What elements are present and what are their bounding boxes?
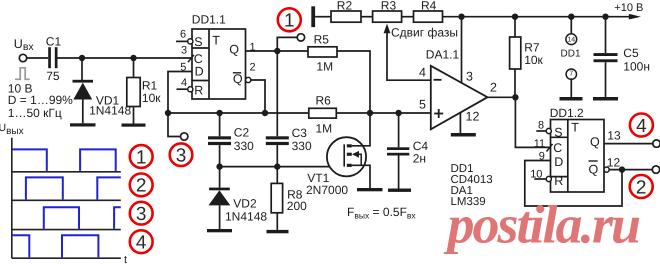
svg-text:1N4148: 1N4148 bbox=[89, 104, 131, 118]
junction R5/drain node bbox=[367, 110, 373, 116]
diode VD2 bbox=[209, 188, 268, 229]
junction C4 node bbox=[395, 110, 401, 116]
pin 2 Qbar inversion circle and wire bbox=[246, 61, 265, 113]
svg-text:1: 1 bbox=[250, 42, 256, 54]
svg-text:4: 4 bbox=[636, 116, 647, 137]
svg-text:200: 200 bbox=[287, 199, 307, 213]
junction R1 bbox=[130, 55, 136, 61]
pin 5 D wire bbox=[168, 62, 192, 113]
flip-flop DD1.2 bbox=[550, 106, 604, 192]
wire bar to R2 bbox=[315, 16, 331, 18]
wire input to C1 bbox=[27, 57, 49, 59]
ground under VT1 bbox=[357, 188, 383, 191]
capacitor C5 bbox=[594, 46, 650, 73]
waveform label 2 (red) bbox=[130, 174, 153, 197]
svg-text:2N7000: 2N7000 bbox=[306, 183, 348, 197]
junction R7 rail bbox=[512, 14, 518, 20]
svg-text:10к: 10к bbox=[524, 53, 543, 67]
wire node 3 drop bbox=[168, 113, 181, 137]
svg-text:R5: R5 bbox=[314, 32, 330, 46]
junction pin3 rail bbox=[458, 14, 464, 20]
junction Qbar drop bbox=[262, 110, 268, 116]
svg-text:R: R bbox=[194, 84, 203, 98]
svg-text:1M: 1M bbox=[316, 122, 333, 136]
wire R1 to ground bbox=[133, 107, 135, 124]
pin 3 clock arrow bbox=[181, 45, 194, 63]
terminal node 3 bbox=[181, 133, 188, 140]
potentiometer R3 bbox=[373, 0, 402, 22]
svg-text:6: 6 bbox=[180, 29, 186, 41]
terminal node 1 bbox=[297, 34, 304, 41]
pin 11 clock arrow bbox=[534, 138, 553, 152]
node label 3 (red) bbox=[170, 143, 193, 166]
pulse icon bbox=[15, 68, 30, 80]
ground under C4 bbox=[388, 189, 411, 192]
svg-text:Q: Q bbox=[590, 135, 600, 149]
svg-text:R2: R2 bbox=[337, 0, 353, 12]
wire to VD1 bbox=[81, 58, 83, 80]
bus bar top-left bbox=[311, 6, 315, 27]
svg-text:R3: R3 bbox=[381, 0, 397, 12]
svg-text:12: 12 bbox=[466, 110, 480, 124]
wire output to DD1.2 clock bbox=[515, 97, 549, 147]
resistor R4 bbox=[414, 0, 443, 22]
svg-text:DA1.1: DA1.1 bbox=[426, 47, 460, 61]
wire C3 bottom to R8 bbox=[276, 145, 278, 183]
svg-text:C: C bbox=[553, 141, 562, 155]
pin 2 output wire bbox=[488, 81, 516, 98]
wire to R1 bbox=[133, 58, 135, 78]
svg-text:S: S bbox=[554, 126, 562, 140]
wire R8 to ground bbox=[276, 213, 278, 230]
svg-text:Q: Q bbox=[233, 72, 243, 86]
svg-text:14: 14 bbox=[567, 37, 575, 44]
svg-text:12: 12 bbox=[607, 156, 621, 170]
svg-text:2н: 2н bbox=[413, 152, 426, 166]
wire rail to DD1 pin 14 bbox=[570, 17, 572, 34]
DD1 power pin 7 bbox=[566, 69, 576, 79]
diode VD1 bbox=[73, 80, 132, 124]
svg-text:S: S bbox=[194, 35, 202, 49]
waveform label 3 (red) bbox=[130, 202, 153, 225]
capacitor C2 bbox=[208, 126, 254, 153]
ground under VD1 bbox=[70, 123, 96, 126]
waveform label 4 (red) bbox=[130, 230, 153, 253]
svg-text:D: D bbox=[195, 65, 204, 79]
junction output node bbox=[512, 94, 518, 100]
svg-text:10: 10 bbox=[530, 168, 542, 180]
svg-text:11: 11 bbox=[534, 138, 545, 150]
resistor R7 bbox=[510, 37, 544, 69]
svg-text:2: 2 bbox=[250, 61, 256, 73]
wire R7 to output node bbox=[514, 69, 516, 97]
ground under DA1.1 bbox=[451, 133, 476, 137]
svg-text:13: 13 bbox=[607, 129, 621, 143]
wire R6 to comparator plus input bbox=[336, 112, 431, 114]
wire C4 bottom bbox=[398, 156, 400, 189]
terminal node 2 bbox=[652, 166, 659, 173]
svg-text:R4: R4 bbox=[421, 0, 437, 12]
pin 6 stub and inversion circle on S bbox=[176, 29, 193, 44]
+10V arrow bbox=[629, 14, 641, 20]
wire pin 7 to ground bbox=[570, 78, 572, 97]
wire C5 to ground bbox=[605, 62, 607, 97]
svg-text:4: 4 bbox=[181, 77, 187, 89]
svg-text:Q: Q bbox=[589, 163, 599, 177]
svg-text:R: R bbox=[554, 174, 563, 188]
ground under DD1 pin 7 bbox=[560, 97, 583, 101]
pin 12 Qbar inversion circle and wire bbox=[604, 156, 652, 173]
svg-text:DD1: DD1 bbox=[561, 49, 581, 60]
svg-text:1: 1 bbox=[284, 11, 295, 32]
pin 1 Q output wire to R5 bbox=[246, 42, 309, 54]
svg-text:4: 4 bbox=[136, 233, 147, 254]
resistor R5 bbox=[308, 32, 337, 73]
resistor R8 bbox=[271, 183, 307, 212]
resistor R6 bbox=[309, 93, 337, 135]
wire bottom rail to VT1 gate bbox=[220, 166, 345, 168]
ground under C5 bbox=[593, 97, 618, 101]
svg-text:C2: C2 bbox=[234, 126, 250, 140]
DD1 power pin 14 bbox=[566, 34, 577, 45]
node label 4 (red) bbox=[630, 114, 653, 137]
wire rail to C5 bbox=[605, 17, 607, 53]
svg-text:Сдвиг фазы: Сдвиг фазы bbox=[391, 25, 458, 39]
junction Q node bbox=[274, 48, 280, 54]
junction rail left bbox=[165, 110, 171, 116]
pin 12 wire to ground bbox=[460, 110, 479, 133]
R3 wiper arrow to comparator minus input bbox=[384, 24, 431, 81]
svg-text:5: 5 bbox=[419, 98, 426, 112]
flip-flop DD1.1 bbox=[192, 13, 246, 100]
capacitor C4 bbox=[387, 139, 428, 166]
svg-text:2: 2 bbox=[136, 176, 147, 197]
pin 13 Q output wire bbox=[604, 129, 653, 144]
waveform axis bbox=[12, 138, 127, 264]
junction feedback node bbox=[619, 166, 625, 172]
svg-text:2: 2 bbox=[490, 81, 497, 95]
terminal node 4 bbox=[653, 140, 660, 147]
waveform trace 2 bbox=[26, 177, 121, 199]
pin 3 wire from rail bbox=[462, 17, 474, 84]
junction C2 top bbox=[216, 110, 222, 116]
svg-text:4: 4 bbox=[419, 65, 426, 79]
wire C2 top bbox=[219, 113, 221, 136]
svg-text:1M: 1M bbox=[316, 60, 333, 74]
svg-text:9: 9 bbox=[539, 150, 545, 162]
svg-text:postila.ru: postila.ru bbox=[444, 195, 641, 255]
svg-text:+10 В: +10 В bbox=[614, 2, 643, 14]
svg-text:C1: C1 bbox=[46, 35, 62, 49]
svg-text:75: 75 bbox=[46, 69, 60, 83]
junction DD1 power rail bbox=[568, 14, 574, 20]
svg-text:330: 330 bbox=[234, 139, 254, 153]
wire R5 to plus-input node bbox=[337, 51, 370, 113]
svg-text:3: 3 bbox=[466, 70, 473, 84]
wire C4 top bbox=[398, 113, 400, 147]
svg-text:8: 8 bbox=[538, 120, 544, 132]
svg-text:5: 5 bbox=[180, 62, 186, 74]
wire R2 to R3 bbox=[361, 16, 373, 18]
wire rail to R7 bbox=[514, 17, 516, 37]
node label 2 (red) bbox=[630, 175, 653, 198]
capacitor C3 bbox=[266, 126, 312, 153]
pin 10 stub and inversion circle on R bbox=[530, 168, 551, 181]
svg-text:100н: 100н bbox=[623, 59, 650, 73]
svg-text:3: 3 bbox=[176, 146, 187, 167]
waveform trace 1 bbox=[12, 149, 116, 171]
junction C5 rail bbox=[602, 14, 608, 20]
svg-text:R6: R6 bbox=[316, 93, 332, 107]
pin 8 stub and inversion circle on S bbox=[536, 120, 551, 134]
transistor VT1 (2N7000 MOSFET) bbox=[306, 113, 370, 197]
wire C2 bottom to VD2 bbox=[219, 145, 221, 188]
svg-text:3: 3 bbox=[136, 204, 147, 225]
wire node 1 riser bbox=[277, 37, 297, 51]
ground under R1 bbox=[122, 124, 146, 127]
node label 1 (red) bbox=[278, 8, 301, 31]
svg-text:C5: C5 bbox=[623, 46, 639, 60]
svg-text:1: 1 bbox=[136, 147, 147, 168]
input signal labels bbox=[8, 82, 73, 120]
wire rail Qbar net to R6 bbox=[168, 112, 309, 114]
svg-text:Q: Q bbox=[229, 42, 239, 56]
svg-text:T: T bbox=[212, 34, 220, 48]
ground under R8 bbox=[267, 230, 289, 233]
waveform trace 3 bbox=[44, 207, 121, 228]
svg-text:D: D bbox=[554, 155, 563, 169]
junction R8 node bbox=[274, 163, 280, 169]
svg-text:1N4148: 1N4148 bbox=[225, 209, 267, 223]
svg-text:DD1.1: DD1.1 bbox=[192, 13, 226, 27]
resistor R1 bbox=[127, 78, 161, 107]
capacitor C1 bbox=[46, 35, 62, 84]
wire Q to C3 riser bbox=[276, 51, 278, 136]
resistor R2 bbox=[331, 0, 361, 22]
svg-text:3: 3 bbox=[181, 45, 187, 57]
waveform trace 4 bbox=[12, 235, 99, 257]
wire C1 to DD1.1 C pin bbox=[58, 57, 193, 59]
junction VD2 node bbox=[216, 163, 222, 169]
svg-text:t: t bbox=[124, 254, 127, 264]
svg-text:T: T bbox=[571, 121, 579, 135]
parts list text bbox=[451, 163, 493, 208]
pin 9 D feedback wire bbox=[525, 150, 622, 206]
wire +10V rail bbox=[443, 16, 631, 18]
junction VD1 bbox=[79, 55, 85, 61]
input terminal bbox=[19, 54, 26, 61]
waveform label 1 (red) bbox=[130, 145, 153, 168]
svg-text:C3: C3 bbox=[292, 126, 308, 140]
ground under VD2 bbox=[207, 229, 232, 232]
svg-text:7: 7 bbox=[569, 71, 573, 78]
svg-text:1…50 кГц: 1…50 кГц bbox=[8, 106, 62, 120]
op-amp DA1.1 comparator bbox=[426, 47, 488, 129]
svg-text:DD1.2: DD1.2 bbox=[550, 106, 584, 120]
svg-text:330: 330 bbox=[292, 139, 312, 153]
svg-text:10к: 10к bbox=[142, 91, 161, 105]
wire R3 to R4 bbox=[402, 16, 414, 18]
pin 4 stub and inversion circle on R bbox=[177, 77, 193, 92]
